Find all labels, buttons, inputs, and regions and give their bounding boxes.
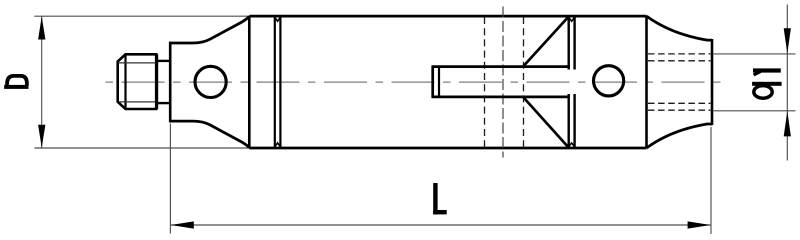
hidden square hole dashed right [523, 17, 525, 147]
label L [433, 183, 447, 214]
extension line L right [710, 127, 712, 234]
flange bottom profile [169, 121, 249, 148]
stub right edge [156, 54, 159, 109]
body top edge [249, 15, 646, 18]
groove notch right bottom [569, 143, 575, 147]
extension line d1 top [714, 53, 796, 55]
end cap top profile [647, 16, 713, 40]
slot top edge [433, 65, 570, 68]
arrow D top [38, 17, 45, 40]
slot bottom edge [433, 96, 570, 99]
screw head thin line bottom [119, 101, 157, 103]
groove right line 1 upper [568, 17, 570, 70]
screw head thin line top [119, 62, 157, 64]
groove line left 2 [279, 17, 281, 147]
centerline [105, 81, 725, 83]
neck top edge [156, 60, 170, 62]
arrow D bottom [38, 125, 45, 148]
body end edge [645, 16, 648, 148]
arrow d1 bottom [784, 111, 791, 136]
arrow L left [171, 221, 194, 228]
hidden square hole dashed left [484, 17, 486, 147]
groove notch left bottom [275, 143, 281, 147]
extension line d1 bottom [714, 110, 796, 112]
chamfer diagonal top [523, 17, 569, 67]
body bottom edge [249, 147, 646, 150]
chamfer diagonal bottom [523, 97, 569, 148]
extension line L left [169, 124, 171, 234]
groove notch left top [275, 17, 281, 21]
dimension line D [41, 16, 43, 148]
label D [4, 76, 28, 89]
extension line D bottom [34, 147, 250, 149]
hidden thread line bottom outer [648, 109, 711, 111]
slot left end [431, 65, 434, 98]
slot inner line [438, 67, 440, 97]
hidden thread line top inner [648, 60, 711, 62]
flange left edge [169, 42, 172, 123]
hidden thread line bottom inner [648, 102, 711, 104]
dimension line L [170, 224, 711, 226]
cross hole circle right [594, 66, 624, 96]
arrow L right [688, 221, 711, 228]
label d1 [752, 68, 782, 98]
screw head stub outline [118, 54, 157, 109]
end cap bottom profile [647, 124, 713, 148]
flange top profile [169, 16, 249, 43]
body start edge [248, 16, 251, 148]
groove right line 2 lower [573, 94, 575, 148]
hole vertical centerline [502, 7, 504, 158]
end cap right face [711, 39, 714, 125]
hidden thread line top outer [648, 53, 711, 55]
neck bottom edge [156, 102, 170, 104]
groove right line 2 upper [573, 17, 575, 70]
groove right line 1 lower [568, 94, 570, 148]
dimension line d1 [786, 5, 788, 161]
groove line left 1 [274, 17, 276, 147]
cross hole circle left [195, 66, 226, 97]
groove notch right top [569, 17, 575, 21]
extension line D top [34, 15, 250, 17]
arrow d1 top [784, 28, 791, 53]
screw head chamfer face line [124, 54, 126, 109]
